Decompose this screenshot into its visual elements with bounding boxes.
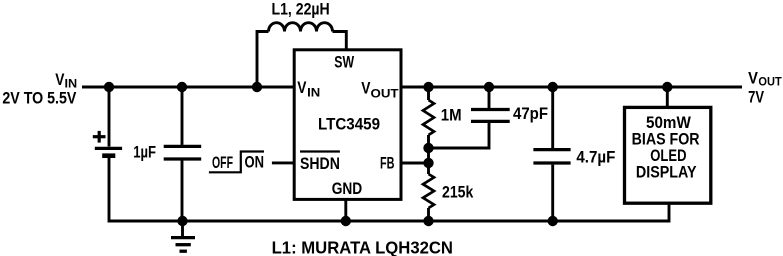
svg-text:4.7µF: 4.7µF <box>576 147 615 166</box>
svg-text:1µF: 1µF <box>133 142 156 161</box>
battery B1 <box>93 87 122 156</box>
wire GND pin <box>344 199 347 221</box>
switch OFF/ON step symbol <box>209 152 264 173</box>
svg-text:L1: MURATA LQH32CN: L1: MURATA LQH32CN <box>272 238 453 256</box>
node input C1 junction <box>177 82 187 92</box>
wire bottom ground rail <box>109 158 669 221</box>
inductor L1 <box>257 23 346 87</box>
svg-text:OUT: OUT <box>758 74 782 88</box>
wire output rail <box>401 86 742 89</box>
svg-text:OUT: OUT <box>371 86 399 100</box>
node R1 C2 junction <box>423 143 433 153</box>
svg-text:FB: FB <box>380 154 395 173</box>
load box 50mW OLED bias <box>625 107 711 203</box>
node output C3 junction <box>548 82 558 92</box>
svg-text:215k: 215k <box>442 183 474 202</box>
wire FB <box>401 162 429 165</box>
node FB junction <box>423 158 433 168</box>
svg-text:IN: IN <box>307 86 320 100</box>
pin label SHDN with overbar <box>300 152 340 174</box>
svg-text:7V: 7V <box>748 87 764 106</box>
svg-text:47pF: 47pF <box>513 104 548 123</box>
svg-text:ON: ON <box>245 153 265 172</box>
svg-text:LTC3459: LTC3459 <box>318 115 380 134</box>
node output C2 junction <box>484 82 494 92</box>
svg-text:1M: 1M <box>441 106 462 125</box>
node C3 bottom junction <box>548 216 558 226</box>
resistor R1 1M <box>423 87 434 148</box>
pin label VOUT <box>361 79 399 101</box>
svg-text:V: V <box>55 70 65 89</box>
svg-text:V: V <box>361 79 371 98</box>
svg-text:2V TO 5.5V: 2V TO 5.5V <box>2 88 77 107</box>
node input battery junction <box>104 82 114 92</box>
svg-text:V: V <box>297 78 307 97</box>
pin label VIN <box>297 78 320 99</box>
node output OLED junction <box>662 82 672 92</box>
svg-text:GND: GND <box>332 179 363 198</box>
wire FB node link <box>427 148 430 163</box>
node R2 bottom junction <box>423 216 433 226</box>
capacitor C1 1uF <box>164 87 202 221</box>
capacitor C3 4.7uF <box>533 87 570 221</box>
svg-text:SHDN: SHDN <box>300 154 340 173</box>
label VOUT output <box>748 69 782 89</box>
node ground junction <box>177 216 187 226</box>
node GND pin junction <box>341 216 351 226</box>
IC U1 LTC3459 <box>294 50 401 200</box>
svg-text:OFF: OFF <box>212 153 233 172</box>
svg-text:DISPLAY: DISPLAY <box>636 163 697 182</box>
wire OLED box top <box>666 87 669 107</box>
ground <box>171 221 195 251</box>
wire SHDN <box>272 161 295 164</box>
svg-text:L1, 22µH: L1, 22µH <box>272 0 330 19</box>
node input L1 junction <box>252 82 262 92</box>
label VIN input <box>55 70 77 91</box>
svg-text:SW: SW <box>334 53 354 72</box>
node output R1 junction <box>423 82 433 92</box>
wire input rail <box>82 86 294 89</box>
resistor R2 215k <box>423 163 434 221</box>
capacitor C2 47pF <box>429 87 510 148</box>
svg-text:V: V <box>748 69 758 88</box>
